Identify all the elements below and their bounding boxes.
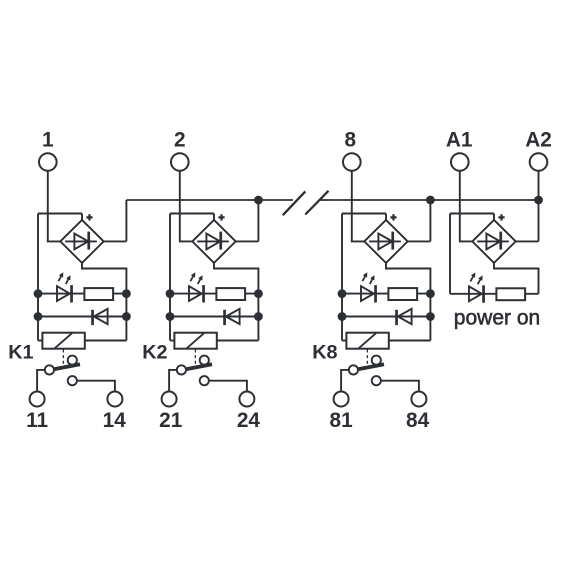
- svg-text:11: 11: [26, 409, 48, 432]
- svg-text:1: 1: [42, 129, 54, 152]
- svg-text:K2: K2: [142, 342, 167, 364]
- svg-text:A2: A2: [525, 129, 552, 152]
- svg-text:21: 21: [159, 409, 182, 432]
- svg-text:81: 81: [330, 409, 353, 432]
- svg-text:K8: K8: [312, 342, 337, 364]
- svg-text:84: 84: [406, 409, 430, 432]
- svg-text:8: 8: [345, 129, 357, 152]
- svg-text:K1: K1: [8, 342, 33, 364]
- svg-text:2: 2: [174, 129, 186, 152]
- svg-text:A1: A1: [446, 129, 473, 152]
- svg-text:power on: power on: [454, 307, 540, 330]
- svg-text:24: 24: [237, 409, 261, 432]
- svg-text:14: 14: [103, 409, 127, 432]
